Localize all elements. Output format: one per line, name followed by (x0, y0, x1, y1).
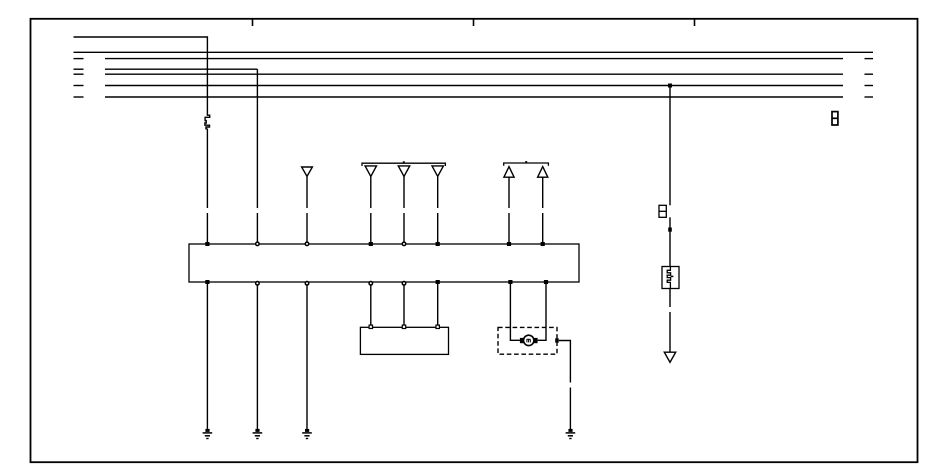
wire column 4 to lower box (370, 286, 372, 326)
pin square top 7 (507, 242, 511, 246)
tick mark 3 on top border (694, 19, 696, 26)
shield triangle S2 (365, 166, 376, 177)
wire V9 segment 2 (669, 217, 671, 266)
wire V5 lower segment (403, 213, 405, 244)
pin square top 4 (369, 242, 373, 246)
pin square on dashed box (555, 338, 559, 342)
wire V7 upper segment (508, 177, 510, 208)
pin ring top 2 (256, 242, 260, 246)
inline connector C1 (659, 205, 666, 217)
motor M1 body (524, 335, 534, 345)
wire bus line 3 left dash (74, 58, 84, 60)
pin square bottom 8 (544, 280, 548, 284)
resistor box R1 (662, 267, 679, 289)
wire bus line 3 right dash (865, 58, 874, 60)
wire V9 segment 4 (669, 312, 671, 352)
pin square bottom 7 (508, 280, 512, 284)
wire V4 upper segment (370, 176, 372, 208)
motor M1 brush left (520, 338, 524, 343)
shield triangle S4 (432, 166, 443, 177)
wire bus line 5 (105, 73, 843, 75)
wire bus line 6 right dash (865, 85, 874, 87)
wire bus line 1 (74, 36, 208, 38)
wire bus line 7 (105, 96, 843, 98)
wire bus line 4 (105, 68, 257, 70)
resistor element right tick (671, 275, 674, 277)
wire ground lead 4 (569, 388, 571, 431)
wire V4 lower segment (370, 213, 372, 244)
motor M1 letter m (527, 339, 530, 343)
wire bus line 7 right dash (865, 96, 874, 98)
pin square on U2 col5 (402, 325, 405, 328)
wire V1 upper segment (206, 36, 208, 114)
wire V1 lower segment (206, 213, 208, 244)
shield group overbar (362, 163, 445, 166)
pin square top 6 (436, 242, 440, 246)
down arrow terminal T1 (664, 352, 675, 362)
lower connector box U2 (360, 327, 448, 354)
pin ring top 3 (305, 242, 309, 246)
shield triangle S1 (302, 167, 313, 176)
wire V1 mid segment (206, 129, 208, 208)
shield group overbar center tick (403, 161, 405, 163)
ground G2 (253, 429, 263, 439)
wire column 6 to lower box (437, 284, 439, 325)
main connector box U1 (189, 244, 579, 282)
wire V2 lower segment (256, 213, 258, 244)
pin ring bottom 4 (369, 282, 373, 286)
wire bus line 2 (74, 51, 874, 53)
wire V5 upper segment (403, 176, 405, 208)
wire bus line 5 left dash (74, 73, 84, 75)
wire V6 lower segment (437, 213, 439, 244)
junction dot on bus line 6 (668, 84, 672, 88)
pin ring bottom 5 (402, 282, 406, 286)
splice square on V9 (668, 228, 672, 232)
wire column 5 to lower box (403, 286, 405, 326)
wire motor feed left (510, 284, 520, 340)
pin square top 1 (205, 242, 209, 246)
arrow triangle A1 (504, 167, 514, 178)
pin square bottom 6 (436, 280, 440, 284)
wire V9 segment 3 (669, 289, 671, 308)
ground G3 (302, 429, 312, 439)
wire ground lead 2 (256, 286, 258, 431)
dashed component box (498, 327, 557, 354)
shield triangle S3 (398, 166, 409, 177)
pin square top 8 (541, 242, 545, 246)
arrow group overbar (504, 163, 549, 166)
wire V3 upper segment (306, 176, 308, 208)
tick mark 1 on top border (252, 19, 254, 26)
wire bus line 5 right dash (865, 73, 874, 75)
pin square on U2 col6 (436, 325, 439, 328)
wire V6 upper segment (437, 176, 439, 208)
pin ring bottom 3 (305, 282, 309, 286)
ground G4 (566, 429, 576, 439)
wire V8 lower segment (542, 213, 544, 244)
pin square bottom 1 (205, 280, 209, 284)
connector C2 top right (832, 112, 838, 125)
wire bus line 6 (105, 85, 843, 87)
pin square on U2 col4 (369, 325, 372, 328)
arrow triangle A2 (538, 167, 548, 178)
resistor element inside R1 (667, 267, 670, 289)
wire ground lead 1 (206, 284, 208, 430)
wire ground lead 3 (306, 286, 308, 431)
wire V9 segment from bus (669, 86, 671, 206)
wire bus line 6 left dash (74, 85, 84, 87)
pin ring bottom 2 (256, 282, 260, 286)
wire V2 upper segment (256, 69, 258, 208)
wire V3 lower segment (306, 213, 308, 244)
circuit breaker CB1 (205, 114, 210, 129)
ground G1 (203, 429, 213, 439)
wire bus line 4 left dash (74, 68, 84, 70)
motor M1 brush right (534, 338, 538, 343)
arrow group overbar center tick (525, 161, 527, 163)
tick mark 2 on top border (473, 19, 475, 26)
pin ring top 5 (402, 242, 406, 246)
wire V7 lower segment (508, 213, 510, 244)
wire motor feed right (538, 284, 546, 340)
wire bus line 7 left dash (74, 96, 84, 98)
wire V8 upper segment (542, 177, 544, 208)
wire bus line 3 (105, 58, 843, 60)
wire from motor case (559, 341, 571, 383)
